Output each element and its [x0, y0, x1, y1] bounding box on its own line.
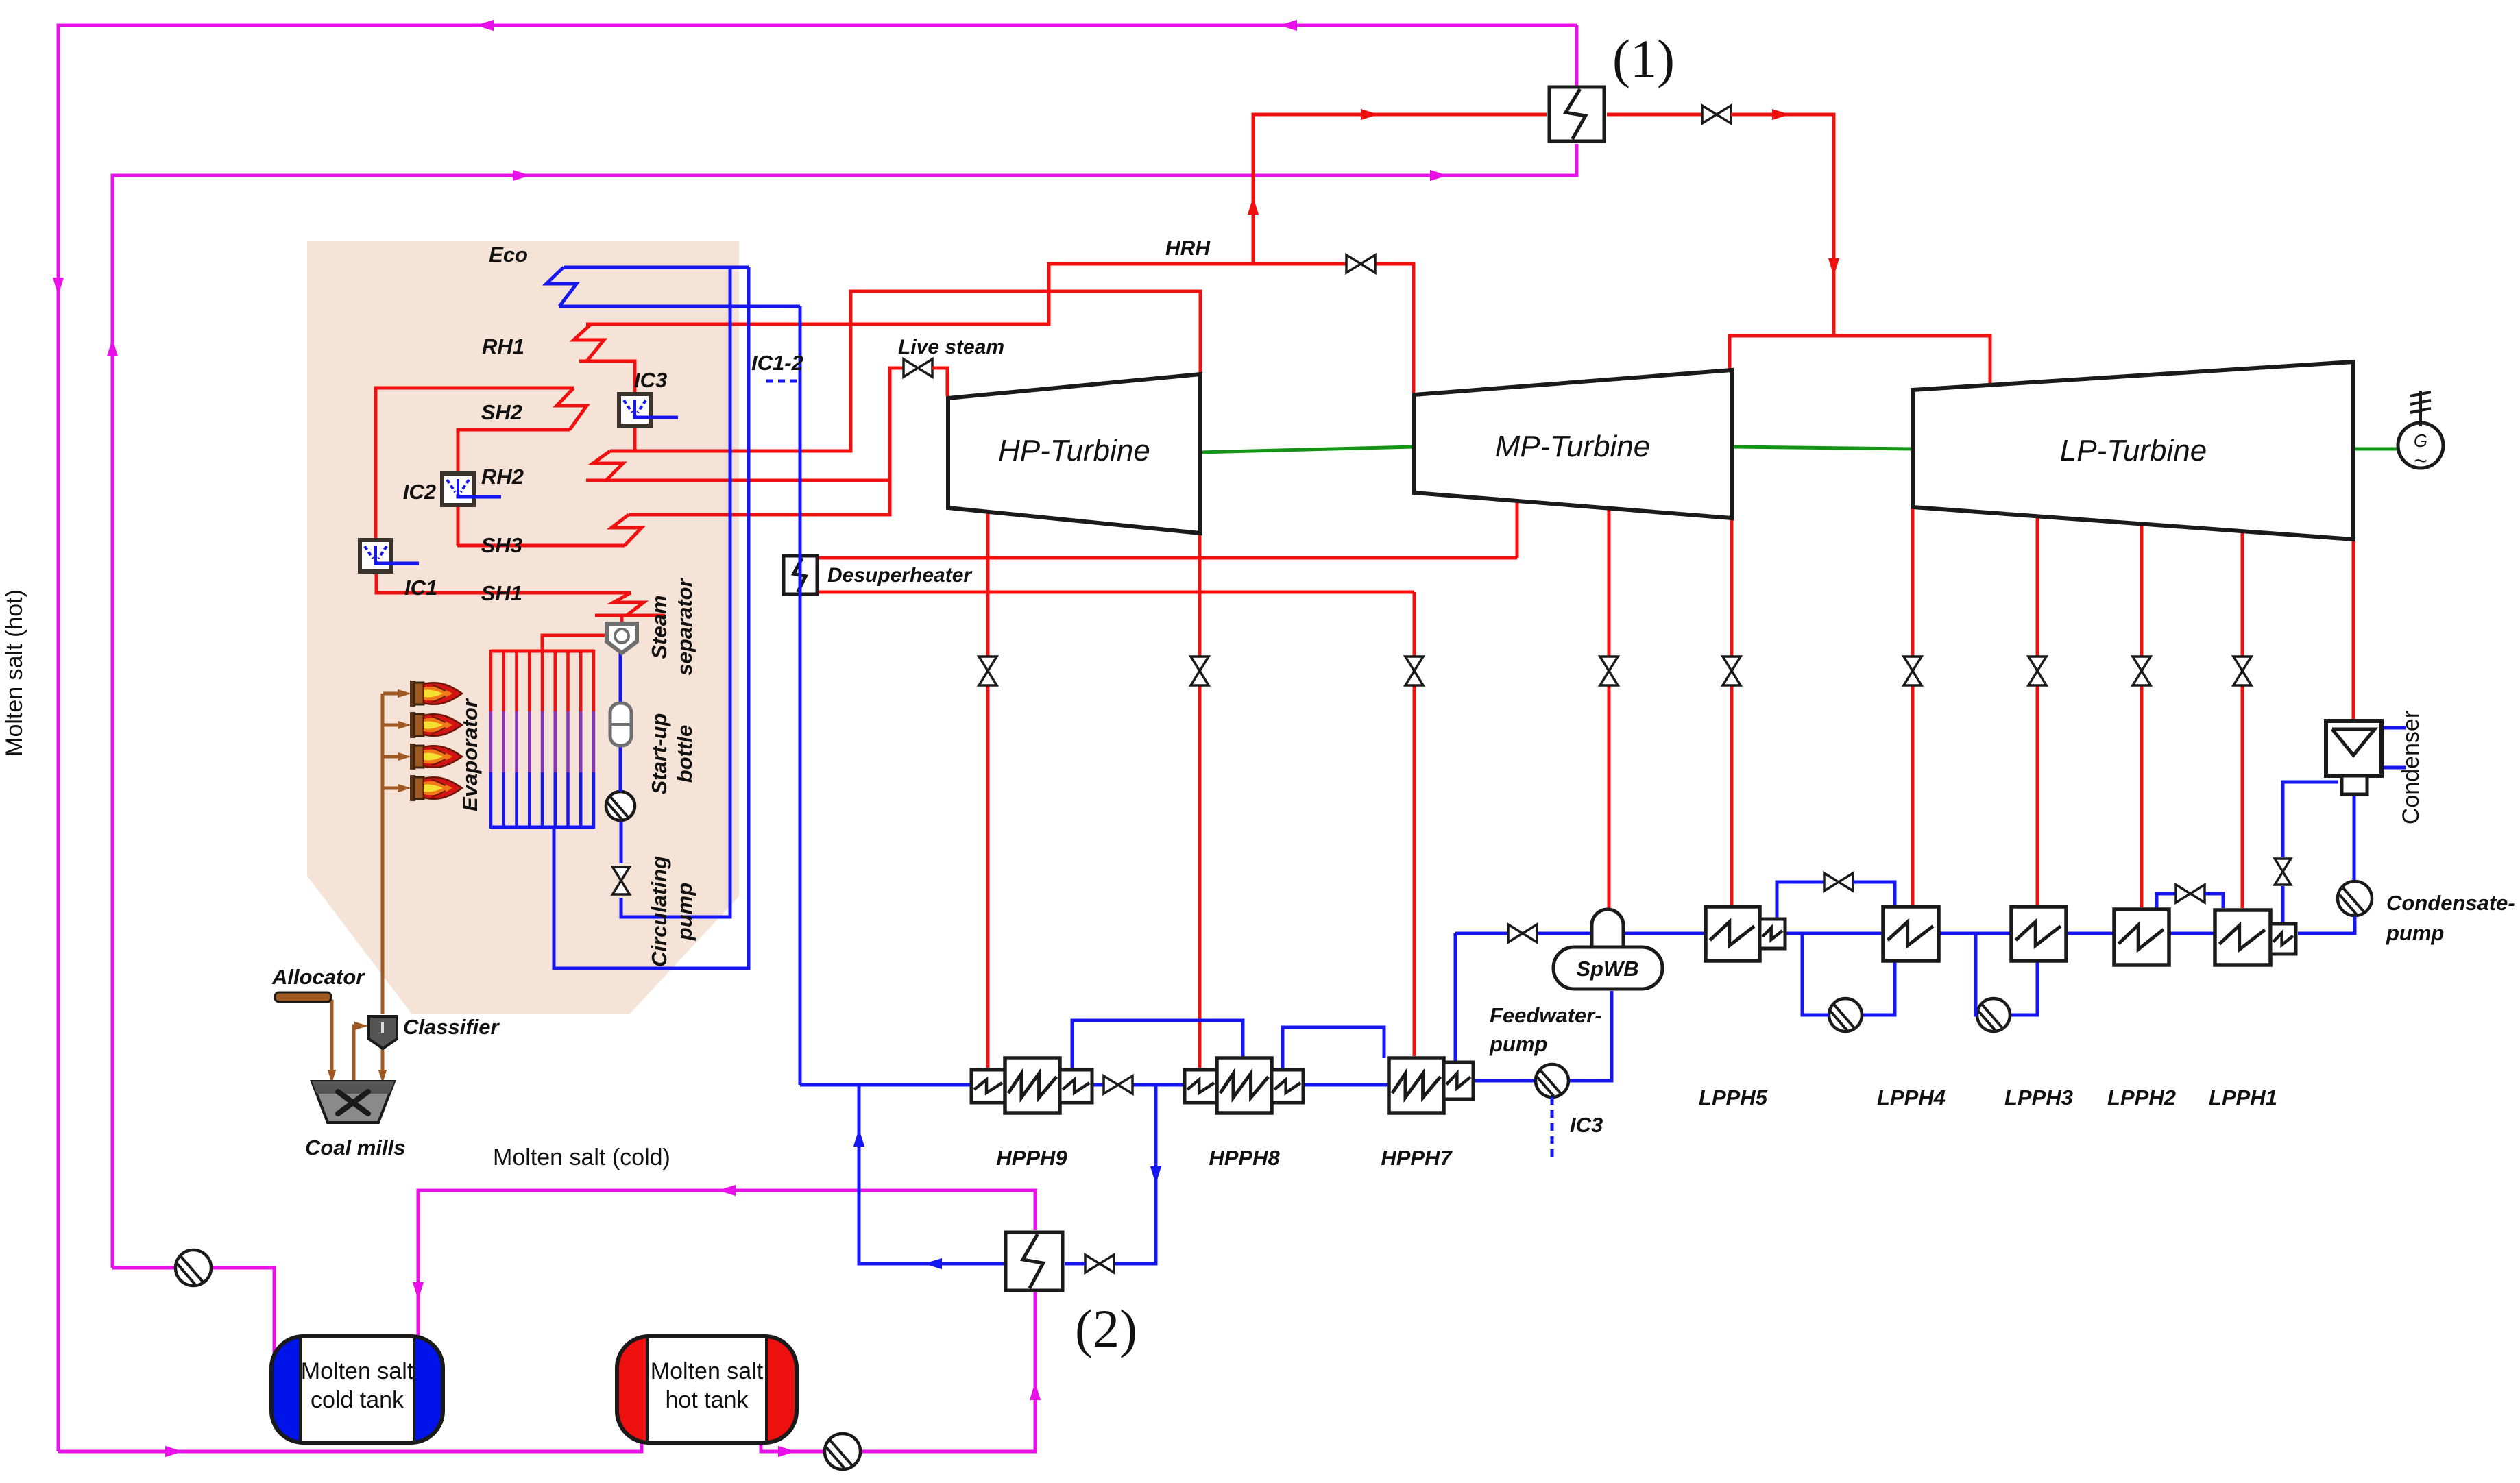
arrow salt top 1: [476, 20, 494, 31]
svg-text:LPPH4: LPPH4: [1877, 1086, 1946, 1110]
wire live steam to HP: [932, 368, 947, 396]
pump feedwater: [1536, 1064, 1568, 1097]
turbine LP: [1913, 362, 2353, 539]
arrow LP feed down: [1828, 258, 1839, 276]
steam separator: [607, 624, 637, 653]
coil SH1: [614, 593, 644, 615]
wire feedwater riser: [799, 306, 802, 1085]
svg-text:IC1: IC1: [404, 576, 437, 600]
wire HP extraction 1: [986, 512, 990, 1068]
coil Eco: [546, 267, 577, 306]
wire HP feed line: [800, 1083, 1389, 1087]
arrow hot out right: [778, 1446, 796, 1457]
wire classifier to mill: [381, 1049, 385, 1073]
svg-text:Evaporator: Evaporator: [458, 698, 482, 811]
wire LPPH3 drain 2: [1976, 933, 1977, 1015]
valve SpWB feed: [1600, 657, 1618, 671]
wire HX2 branch: [1114, 1085, 1156, 1264]
wire HX1 out: [1607, 113, 1702, 117]
wire HX2 out: [859, 1085, 1004, 1264]
arrow into classifier: [354, 1022, 368, 1030]
arrow salt cold 1: [513, 170, 531, 181]
svg-text:hot tank: hot tank: [666, 1387, 749, 1413]
wire molten salt cold return: [418, 1190, 1035, 1367]
svg-text:SH2: SH2: [481, 400, 522, 424]
wire condenser left drain: [2283, 782, 2338, 857]
boiler furnace background: [307, 241, 739, 1014]
arrow HX1 in up: [1248, 197, 1259, 215]
svg-text:HPPH8: HPPH8: [1209, 1146, 1280, 1170]
coal mill: [312, 1081, 394, 1123]
svg-text:pump: pump: [1489, 1032, 1547, 1056]
svg-text:Start-up: Start-up: [647, 713, 671, 795]
wire HPPH9 bypass: [1072, 1020, 1243, 1070]
svg-text:(2): (2): [1075, 1299, 1137, 1358]
svg-text:Molten salt (cold): Molten salt (cold): [493, 1144, 670, 1171]
valve HP feed: [1104, 1076, 1118, 1094]
svg-text:(1): (1): [1612, 29, 1675, 88]
svg-text:Condensate-: Condensate-: [2386, 891, 2515, 915]
valve LPPH2 bypass: [2176, 885, 2190, 903]
svg-text:Molten salt: Molten salt: [651, 1358, 764, 1384]
valve LPPH5 bypass: [1824, 873, 1839, 891]
wire LPPH5 bypass: [1777, 882, 1824, 919]
coil SH3: [611, 515, 642, 546]
wire HPPH7 to pump: [1473, 1079, 1537, 1083]
svg-text:HP-Turbine: HP-Turbine: [998, 434, 1150, 467]
wire molten salt hot top header: [58, 25, 1577, 1451]
wire LP extraction 2: [2036, 516, 2039, 905]
svg-text:LPPH5: LPPH5: [1699, 1086, 1768, 1110]
wire coal mill out: [354, 1026, 356, 1083]
valve live steam: [904, 359, 918, 377]
wire IC1-2 tap: [766, 380, 798, 383]
injection cooler IC2: [442, 474, 474, 505]
preheater LPPH2: [2114, 909, 2169, 965]
wire evaporator feed: [554, 267, 749, 968]
heat exchanger (2): [1006, 1232, 1063, 1290]
preheater HPPH9: [971, 1070, 1005, 1103]
coil RH1: [574, 324, 604, 361]
classifier: [369, 1016, 397, 1049]
pump cold tank: [175, 1250, 211, 1286]
wire cold tank outlet: [112, 1268, 274, 1367]
tank SpWB: [1592, 909, 1623, 947]
wire condensate main: [1455, 932, 2296, 935]
wire HRH to MP: [1375, 264, 1414, 393]
arrow HX2 feed up: [1030, 1382, 1041, 1400]
wire desuperheater line 1: [817, 556, 1517, 560]
arrow salt riser up: [107, 339, 118, 356]
wire MP extraction 1: [1516, 499, 1519, 558]
valve LPPH5 feed: [1723, 657, 1741, 671]
wire condenser drain: [2353, 796, 2356, 881]
wire cooling water 2: [2384, 766, 2406, 770]
wire LPPH4 drain: [1862, 961, 1895, 1015]
wire allocator to mill: [326, 1001, 332, 1073]
pump hot tank: [825, 1434, 860, 1469]
arrow HX2 out left: [924, 1258, 942, 1269]
tank molten salt hot: [617, 1336, 797, 1443]
start-up bottle: [610, 703, 631, 746]
wire pump to SpWB: [1567, 991, 1612, 1081]
wire LP extraction 1: [1911, 507, 1915, 905]
valve LPPH2 feed: [2133, 657, 2151, 671]
svg-text:LPPH2: LPPH2: [2107, 1086, 2176, 1110]
wire SH1 bottom left: [595, 614, 627, 617]
svg-text:IC1-2: IC1-2: [751, 351, 803, 375]
svg-text:cold tank: cold tank: [311, 1387, 404, 1413]
wire LP inlet manifold: [1730, 336, 1990, 384]
wire desuperheater out to HPPH7: [1413, 592, 1416, 1056]
svg-text:pump: pump: [2386, 921, 2444, 945]
svg-text:HPPH7: HPPH7: [1381, 1146, 1453, 1170]
wire bottle to separator: [619, 652, 622, 704]
wire LPPH2 bypass: [2157, 894, 2176, 908]
allocator: [275, 992, 331, 1002]
svg-text:Desuperheater: Desuperheater: [827, 564, 973, 587]
wire feedwater down: [1454, 933, 1457, 1061]
wire LPPH3 drain: [2010, 961, 2037, 1015]
arrow HX2 branch down: [1150, 1166, 1161, 1184]
valve SpWB left: [1508, 924, 1523, 942]
svg-text:IC2: IC2: [403, 480, 436, 504]
preheater LPPH3: [2011, 907, 2066, 961]
arrow salt cold 2: [1430, 170, 1448, 181]
wire circulation riser: [621, 267, 730, 917]
wire IC2 to SH3: [457, 505, 458, 546]
svg-text:pump: pump: [673, 883, 696, 941]
pump LPPH4 drain: [1829, 998, 1862, 1031]
wire HRH to HX1: [1253, 114, 1547, 264]
arrow HX1 out right: [1772, 109, 1790, 120]
valve HX1 out: [1702, 106, 1717, 123]
preheater LPPH5: [1706, 907, 1760, 961]
svg-text:~: ~: [2414, 448, 2427, 474]
wire condensate to LPPH1: [2298, 916, 2355, 933]
injection cooler IC3: [619, 394, 651, 426]
wire separator to evaporator: [542, 635, 610, 651]
valve LPPH4 feed: [1904, 657, 1922, 671]
svg-text:Coal mills: Coal mills: [305, 1136, 405, 1160]
svg-text:Steam: Steam: [647, 595, 671, 659]
wire pump to bottle: [619, 747, 622, 792]
wire RH1 top to HRH: [586, 264, 1346, 324]
arrow salt left down: [53, 278, 64, 295]
wire LP extraction 4: [2241, 531, 2244, 908]
valve condenser drain: [2275, 859, 2291, 872]
wire HX2 in: [1065, 1262, 1085, 1266]
pump circulating: [606, 792, 635, 820]
wire SH2 bottom to IC2: [458, 430, 569, 472]
wire HP extraction 2: [1198, 533, 1202, 1068]
valve HX2: [1085, 1255, 1100, 1273]
wire drain to LPPH1: [2281, 886, 2285, 924]
wire HPPH8 bypass: [1283, 1027, 1384, 1070]
wire IC3 to RH2: [633, 427, 637, 451]
wire LP exhaust to condenser: [2352, 539, 2355, 720]
wire MP extraction 2: [1608, 506, 1611, 911]
svg-text:HPPH9: HPPH9: [996, 1146, 1067, 1170]
svg-text:Molten salt (hot): Molten salt (hot): [1, 589, 27, 757]
wire shaft MP-LP: [1732, 447, 1913, 449]
svg-text:Circulating: Circulating: [647, 856, 671, 967]
arrow classifier to mill: [378, 1070, 387, 1083]
valve LPPH1 feed: [2233, 657, 2251, 671]
svg-text:LPPH1: LPPH1: [2209, 1086, 2277, 1110]
svg-text:SH1: SH1: [481, 581, 522, 605]
coil RH2: [593, 451, 623, 480]
generator G: [2398, 423, 2443, 468]
arrow allocator to mill: [328, 1070, 336, 1083]
condenser: [2326, 721, 2382, 776]
svg-text:IC3: IC3: [634, 368, 667, 392]
burners: [383, 692, 400, 696]
svg-text:Live steam: Live steam: [898, 336, 1004, 358]
wire coal riser: [381, 694, 385, 1014]
valve HRH: [1346, 255, 1361, 273]
turbine HP: [948, 374, 1200, 533]
wire SH2 top to IC1: [376, 388, 555, 538]
svg-text:bottle: bottle: [673, 725, 696, 783]
arrow HX2 out up: [853, 1129, 864, 1147]
pump condensate: [2338, 881, 2372, 916]
wire IC1 to SH1: [376, 574, 379, 593]
wire molten salt cold riser: [112, 144, 1577, 1268]
valve HPPH7 feed: [1405, 657, 1423, 671]
wire molten salt bottom left: [58, 1429, 642, 1451]
arrow salt bottom right: [165, 1446, 183, 1457]
wire HX1 out 2: [1731, 114, 1834, 334]
svg-text:Molten salt: Molten salt: [301, 1358, 414, 1384]
wire SH1 to separator: [620, 615, 624, 626]
wire cold reheat: [629, 291, 1200, 451]
wire circ valve to pump: [620, 821, 623, 863]
preheater LPPH4: [1883, 907, 1939, 961]
arrow HX1 in right: [1361, 109, 1379, 120]
injection cooler IC1: [360, 540, 391, 572]
wire LPPH5 bypass 2: [1853, 882, 1895, 905]
preheater HPPH8: [1185, 1070, 1217, 1103]
pump LPPH3 drain: [1977, 998, 2010, 1031]
preheater LPPH1: [2215, 910, 2270, 965]
arrow cold return left: [718, 1185, 736, 1196]
wire RH2 bottom to live steam: [586, 479, 890, 482]
valve HP extraction 2: [1191, 657, 1209, 671]
desuperheater: [784, 556, 817, 594]
svg-text:HRH: HRH: [1165, 237, 1211, 260]
svg-text:Condenser: Condenser: [2398, 711, 2424, 824]
svg-text:SpWB: SpWB: [1576, 957, 1638, 981]
tank molten salt cold: [271, 1336, 443, 1443]
turbine MP: [1414, 370, 1732, 518]
svg-text:LPPH3: LPPH3: [2004, 1086, 2073, 1110]
svg-text:separator: separator: [673, 577, 696, 675]
wire LPPH2 bypass 2: [2205, 894, 2223, 908]
wire shaft HP-MP: [1200, 447, 1414, 452]
arrow cold return down: [413, 1282, 424, 1300]
preheater HPPH7: [1389, 1058, 1444, 1113]
svg-text:Feedwater-: Feedwater-: [1490, 1003, 1602, 1027]
wire LPPH4 drain 2: [1802, 933, 1829, 1015]
arrow salt top 2: [1279, 20, 1297, 31]
svg-text:RH2: RH2: [481, 465, 524, 489]
svg-text:RH1: RH1: [482, 334, 524, 358]
wire feedwater riser over desuperheater: [799, 554, 802, 596]
evaporator coil: [491, 650, 594, 653]
wire LP extraction 3: [2140, 524, 2144, 907]
wire hot tank outlet: [761, 1292, 1035, 1451]
svg-text:LP-Turbine: LP-Turbine: [2060, 434, 2207, 467]
svg-text:MP-Turbine: MP-Turbine: [1495, 430, 1651, 463]
coil SH2: [557, 388, 587, 430]
valve HP extraction 1: [979, 657, 997, 671]
wire MP exhaust to LPPH5: [1730, 518, 1734, 905]
wire RH1 bottom to IC3: [579, 361, 635, 393]
valve LPPH3 feed: [2028, 657, 2046, 671]
wire IC3 tap: [1551, 1097, 1554, 1160]
wire live steam: [629, 368, 904, 515]
svg-text:IC3: IC3: [1570, 1113, 1603, 1137]
wire desuperheater line 2: [817, 591, 1414, 594]
valve circulating: [613, 867, 630, 881]
wire shaft LP-generator: [2353, 448, 2398, 451]
svg-text:Allocator: Allocator: [271, 965, 365, 989]
svg-text:SH3: SH3: [481, 533, 522, 557]
heat exchanger (1): [1549, 87, 1604, 141]
wire cooling water 1: [2384, 726, 2406, 730]
wire HX1 top stub: [1575, 25, 1579, 86]
svg-text:Classifier: Classifier: [403, 1015, 500, 1039]
svg-text:Eco: Eco: [489, 243, 528, 267]
